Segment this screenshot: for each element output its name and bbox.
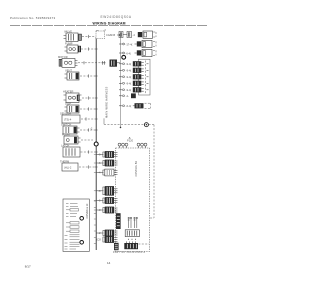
console row group 3 xyxy=(65,235,80,249)
trunk left ticks xyxy=(94,155,96,244)
console box xyxy=(63,199,89,251)
svg-text:-9-4(: -9-4( xyxy=(126,88,132,92)
svg-text:MOTOR: MOTOR xyxy=(58,55,68,59)
center xyxy=(90,28,154,252)
edge connector B1 xyxy=(96,151,117,158)
svg-text:P120: P120 xyxy=(127,139,134,143)
edge connector B2 xyxy=(96,160,117,167)
wire L10 xyxy=(81,151,96,153)
wire L11 xyxy=(79,166,95,168)
svg-text:8/17: 8/17 xyxy=(25,264,31,268)
console badge 1 xyxy=(80,217,84,221)
connector group outline xyxy=(139,59,151,95)
component L10 xyxy=(61,143,80,157)
wire L1 to top center xyxy=(82,36,95,38)
leftcol xyxy=(58,30,120,172)
right row R2 xyxy=(119,40,156,47)
right row R10 xyxy=(119,93,136,98)
wire to door xyxy=(104,123,144,125)
svg-text:-9-4(: -9-4( xyxy=(126,62,132,66)
arrow xyxy=(117,34,120,36)
component L7 xyxy=(60,111,80,123)
edge connector B4 xyxy=(96,186,117,196)
svg-text:-9-4(: -9-4( xyxy=(126,82,132,86)
svg-text:CONSOLE UI: CONSOLE UI xyxy=(86,203,89,218)
rightcol xyxy=(119,31,156,128)
svg-text:(TS)-4: (TS)-4 xyxy=(64,118,72,122)
right row G3 xyxy=(119,74,149,79)
outer dashed line right xyxy=(150,125,155,218)
inline pin L3 xyxy=(102,61,106,65)
svg-text:FLOAT: FLOAT xyxy=(62,132,71,136)
group inner dashed xyxy=(144,61,146,95)
component L9 xyxy=(62,132,81,144)
wire L6 xyxy=(80,108,95,110)
svg-text:-9-4(: -9-4( xyxy=(126,69,132,73)
svg-text:WIRING DIAGRAM: WIRING DIAGRAM xyxy=(93,22,126,26)
right row R11 xyxy=(119,103,151,108)
edge connector B8 xyxy=(96,230,117,237)
wire L5 xyxy=(82,97,95,99)
dashed terminal box top xyxy=(96,31,105,39)
header xyxy=(10,15,208,268)
svg-text:-2-: -2- xyxy=(126,94,129,98)
wire L9 to junction xyxy=(81,139,93,141)
badge circle A xyxy=(122,55,126,59)
bottom xyxy=(63,151,149,251)
wire L4 xyxy=(80,75,95,77)
wire L7 xyxy=(81,118,95,120)
console row group 2 xyxy=(66,222,79,233)
component L6 xyxy=(65,101,80,113)
console badge 2 xyxy=(80,241,84,245)
edge connector B9 xyxy=(97,236,118,243)
edge connector strip E2 xyxy=(114,243,119,250)
board top pins xyxy=(118,136,147,148)
main harness trunk xyxy=(95,37,97,250)
component L3 motor xyxy=(58,55,78,68)
right row R3 xyxy=(119,49,156,56)
right row G1 xyxy=(119,61,149,66)
svg-text:-9-4(: -9-4( xyxy=(126,75,132,79)
door terminal circle xyxy=(144,123,148,127)
component L5 xyxy=(63,90,82,103)
component L4 xyxy=(65,69,80,81)
svg-text:(HL)-2: (HL)-2 xyxy=(64,166,72,170)
right row G2 xyxy=(119,68,149,73)
trunk ticks xyxy=(95,49,98,167)
right row G4 xyxy=(119,81,149,86)
component L2 xyxy=(65,42,82,54)
power connector dark xyxy=(124,241,149,249)
svg-text:LATCH: LATCH xyxy=(61,143,69,147)
svg-text:-6-4(: -6-4( xyxy=(126,51,132,55)
edge connector B6 xyxy=(96,207,117,214)
component L8 xyxy=(61,122,80,134)
svg-text:-17-4(: -17-4( xyxy=(126,42,133,46)
right row R1 xyxy=(119,31,156,38)
console row 1 xyxy=(66,204,79,217)
wire L2 xyxy=(81,48,95,50)
wire L8 xyxy=(80,129,95,131)
svg-text:CA##-B: CA##-B xyxy=(106,33,115,37)
dark relay box xyxy=(110,60,118,67)
svg-text:EW24ID80QS0A: EW24ID80QS0A xyxy=(101,15,132,19)
wire L3 to center xyxy=(78,62,101,64)
transformer pins xyxy=(128,217,138,228)
CA box corner mark xyxy=(96,31,99,34)
junction node ring xyxy=(94,142,98,146)
svg-text:MAIN WIRE HARNESS: MAIN WIRE HARNESS xyxy=(105,86,109,118)
svg-text:14: 14 xyxy=(107,261,111,265)
right row G5 xyxy=(119,87,149,92)
edge connector B5 xyxy=(96,197,117,204)
edge connector B3 xyxy=(96,169,117,176)
svg-text:(C8: (C8 xyxy=(97,238,102,242)
svg-text:-6-4(: -6-4( xyxy=(126,104,132,108)
header rule xyxy=(10,25,208,27)
transformer winding box xyxy=(125,230,139,237)
dashes right of circle xyxy=(149,124,154,126)
svg-text:THERM: THERM xyxy=(60,159,69,163)
dots xyxy=(128,239,129,240)
control board outline xyxy=(116,148,150,252)
harness drop line xyxy=(103,118,105,124)
edge connector strip E1 xyxy=(116,213,121,229)
svg-text:CONTROL BD: CONTROL BD xyxy=(135,161,138,177)
component L1 fill valve xyxy=(64,30,82,42)
bus line right xyxy=(120,37,122,128)
svg-text:Publication No. 5995609473: Publication No. 5995609473 xyxy=(10,16,56,20)
component L11 xyxy=(60,159,78,171)
